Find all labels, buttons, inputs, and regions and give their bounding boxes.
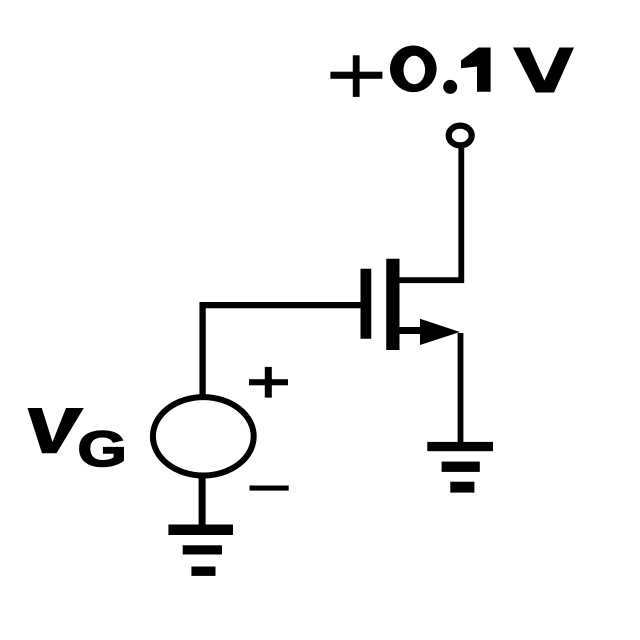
svg-text:G: G [78, 421, 127, 477]
